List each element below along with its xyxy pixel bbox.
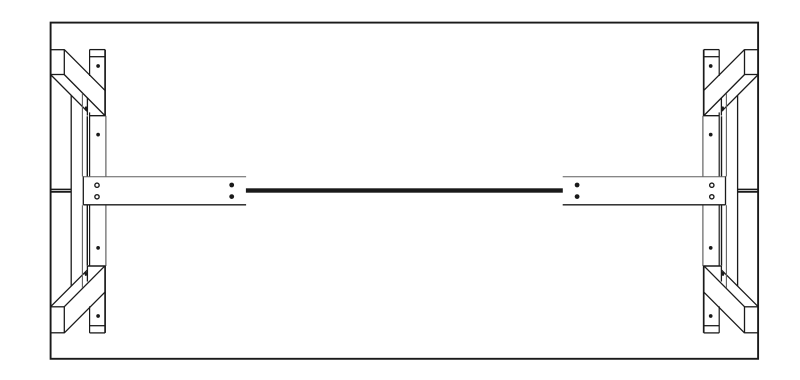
left column bottom cap [90,326,106,333]
left column inner edge [89,50,91,333]
left outer tube back edge [81,94,83,289]
left crossbar end across foot [51,189,72,191]
right bracket bolts [575,183,580,199]
left foot top end cap [51,49,65,74]
left upper diagonal brace [51,50,106,116]
right bracket screw holes [710,183,714,199]
left column top cap [90,50,106,57]
left crossbar bracket plate [83,176,246,205]
right outer tube front edge [721,116,723,265]
left tube junction shoulders [88,116,106,266]
left bracket bolts [229,183,234,199]
left outer tube front edge [86,116,88,265]
right tube junction shoulders [703,116,721,266]
right column bottom cap [704,326,720,333]
right upper brace bolt [722,106,725,110]
left upper brace bolt [85,106,88,110]
table top outline [51,23,759,359]
right lower brace bolt [722,272,725,276]
right lower diagonal brace [703,266,758,333]
right upper diagonal brace [703,50,758,116]
left lower diagonal brace [51,266,106,333]
right foot top end cap [745,49,759,74]
right column inner edge [718,50,720,333]
right foot inner edge [737,95,739,286]
left foot inner edge [70,95,72,286]
left bracket screw holes [95,183,99,199]
right crossbar bracket plate [563,176,726,205]
right foot bottom end cap [745,307,759,334]
right column mounting holes [709,64,713,318]
left column mounting holes [96,64,100,318]
right outer tube back edge [725,94,727,289]
right column outer edge [702,50,705,333]
right column top cap [704,50,720,57]
left lower brace bolt [85,272,88,276]
left foot bottom end cap [51,307,65,334]
right crossbar end across foot [738,189,759,191]
left column outer edge [104,50,107,333]
center crossbar beam [246,188,563,192]
